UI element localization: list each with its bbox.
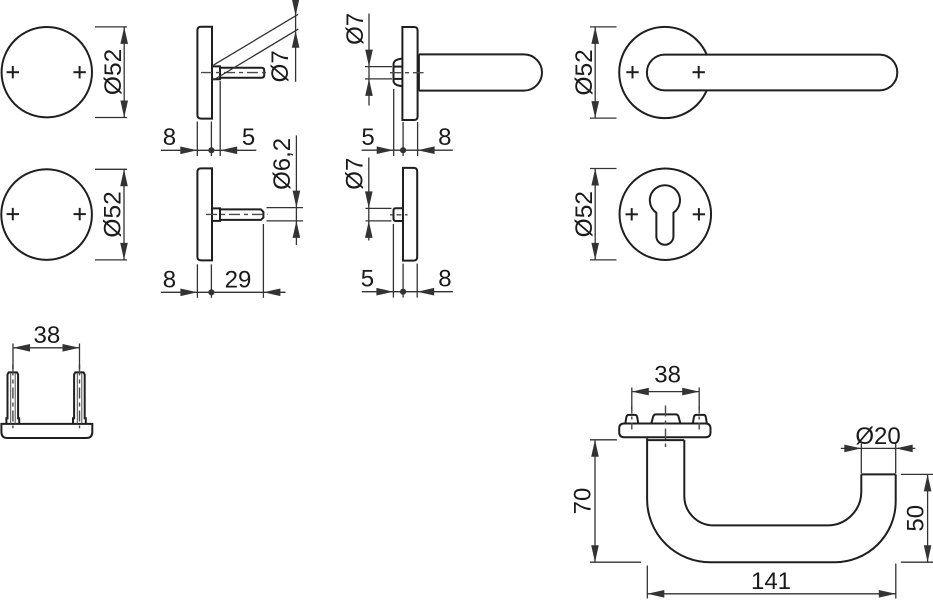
svg-text:5: 5 xyxy=(242,124,255,151)
svg-text:8: 8 xyxy=(438,124,451,151)
svg-text:38: 38 xyxy=(654,362,681,389)
svg-text:Ø52: Ø52 xyxy=(571,191,598,237)
svg-text:Ø20: Ø20 xyxy=(855,423,900,450)
svg-text:Ø7: Ø7 xyxy=(341,158,368,190)
svg-text:5: 5 xyxy=(361,266,374,293)
svg-text:8: 8 xyxy=(438,266,451,293)
svg-text:70: 70 xyxy=(570,488,597,515)
svg-text:5: 5 xyxy=(361,124,374,151)
svg-text:Ø52: Ø52 xyxy=(100,191,127,237)
svg-text:8: 8 xyxy=(163,124,176,151)
svg-text:Ø7: Ø7 xyxy=(267,50,294,82)
svg-text:Ø6,2: Ø6,2 xyxy=(269,138,296,190)
svg-text:38: 38 xyxy=(34,322,61,349)
svg-text:Ø52: Ø52 xyxy=(571,49,598,95)
svg-text:8: 8 xyxy=(163,266,176,293)
svg-text:Ø7: Ø7 xyxy=(342,13,369,45)
svg-text:Ø52: Ø52 xyxy=(100,49,127,95)
svg-text:29: 29 xyxy=(225,266,252,293)
svg-text:50: 50 xyxy=(902,505,929,532)
svg-text:141: 141 xyxy=(751,568,791,595)
